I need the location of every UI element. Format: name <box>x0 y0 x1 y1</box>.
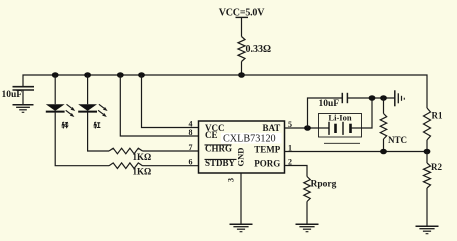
svg-text:1KΩ: 1KΩ <box>133 167 152 177</box>
wire R2 top <box>426 152 428 164</box>
wire Rporg to ground <box>306 202 308 225</box>
svg-text:CE: CE <box>205 130 218 140</box>
svg-text:0.33Ω: 0.33Ω <box>246 44 272 55</box>
op IC U1 CXLB73120 <box>199 121 285 173</box>
wire VCC to R <box>241 17 243 36</box>
wire LED2 to R3 <box>88 112 109 151</box>
net label VCC=5.0V <box>219 8 265 19</box>
thermistor NTC <box>380 114 407 146</box>
resistor R2 <box>424 162 443 188</box>
node battery top <box>369 95 376 101</box>
wire top rail <box>23 75 427 108</box>
wire NTC top <box>383 98 385 114</box>
svg-text:CXLB73120: CXLB73120 <box>223 134 276 145</box>
wire PORG pin2 <box>285 166 308 177</box>
svg-text:Li-Ion: Li-Ion <box>328 112 351 122</box>
wire rail to LED1 <box>54 75 56 104</box>
node VCC pin on rail <box>138 72 145 78</box>
wire TEMP pin1 <box>285 151 428 153</box>
node NTC top <box>380 95 387 101</box>
svg-text:8: 8 <box>189 128 193 137</box>
wire NTC bottom <box>383 139 385 152</box>
wire node to C2 <box>308 98 343 128</box>
svg-text:10uF: 10uF <box>319 99 340 109</box>
svg-text:7: 7 <box>189 143 193 152</box>
svg-text:PORG: PORG <box>254 159 280 169</box>
capacitor C1 10uF <box>2 87 35 100</box>
svg-text:BAT: BAT <box>262 123 280 133</box>
svg-text:1KΩ: 1KΩ <box>133 152 152 162</box>
svg-text:3: 3 <box>227 178 236 182</box>
label green (CJK drawn) <box>62 122 69 128</box>
wire R3 to pin7 <box>143 150 199 152</box>
svg-text:R2: R2 <box>431 162 442 172</box>
wire rail to LED2 <box>87 75 89 104</box>
wire C1 to ground <box>22 90 24 105</box>
svg-text:GND: GND <box>236 148 246 167</box>
LED D1 green <box>46 104 75 117</box>
wire rail to CE pin8 <box>120 75 198 136</box>
wire BAT pin5 <box>285 127 330 129</box>
label red (CJK drawn) <box>94 122 101 128</box>
ground (R2) <box>416 226 439 234</box>
svg-text:4: 4 <box>189 120 193 129</box>
svg-text:NTC: NTC <box>388 135 407 145</box>
svg-text:6: 6 <box>189 158 193 167</box>
ground (Rporg) <box>296 224 319 232</box>
LED D2 red <box>78 104 107 117</box>
wire GND pin3 <box>240 173 242 224</box>
ground (left cap) <box>13 105 34 113</box>
resistor 0.33ohm <box>238 37 271 62</box>
svg-text:10uF: 10uF <box>2 90 23 100</box>
wire LED1 to R4 <box>55 112 109 166</box>
ground (IC) <box>230 224 253 232</box>
wire battery to node <box>351 98 373 128</box>
wire C2 to ground <box>347 97 394 99</box>
svg-text:Rporg: Rporg <box>311 180 337 190</box>
svg-text:TEMP: TEMP <box>254 144 281 154</box>
capacitor C2 10uF <box>319 93 348 109</box>
ground (right, sideways) <box>395 90 405 106</box>
wire R to rail <box>241 62 243 76</box>
wire R4 to pin6 <box>143 165 199 167</box>
node CE on rail <box>117 72 124 78</box>
resistor Rporg <box>304 177 337 202</box>
resistor R4 1K (STDBY) <box>109 163 151 177</box>
wire rail to VCC pin4 <box>142 75 199 128</box>
resistor R3 1K (CHRG) <box>109 148 151 162</box>
junction dot VCC rail <box>238 72 245 78</box>
node BAT <box>304 125 311 131</box>
wire R2 to ground <box>426 188 428 226</box>
node NTC/TEMP <box>380 149 387 155</box>
node LED2 on rail <box>84 72 91 78</box>
resistor R1 <box>424 108 443 140</box>
node LED1 on rail <box>52 72 59 78</box>
wire R1 bottom <box>426 140 428 152</box>
node R1/R2/TEMP <box>424 149 431 155</box>
svg-text:R1: R1 <box>432 111 443 121</box>
battery BT1 Li-Ion <box>319 112 362 143</box>
